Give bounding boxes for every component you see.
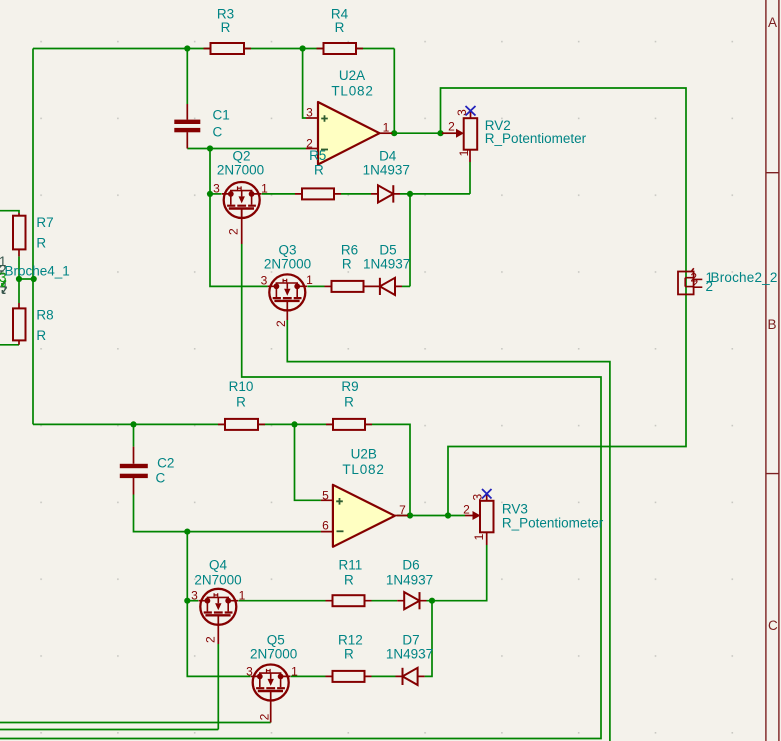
svg-text:3: 3 xyxy=(246,665,253,679)
svg-text:R10: R10 xyxy=(229,379,254,394)
svg-text:2: 2 xyxy=(306,137,313,151)
svg-text:2: 2 xyxy=(692,277,699,291)
svg-text:Q4: Q4 xyxy=(209,558,228,573)
svg-text:2N7000: 2N7000 xyxy=(264,257,311,272)
svg-text:1: 1 xyxy=(457,149,471,156)
svg-text:3: 3 xyxy=(470,494,484,501)
svg-text:R8: R8 xyxy=(36,308,53,323)
svg-text:1: 1 xyxy=(383,121,390,135)
svg-text:1N4937: 1N4937 xyxy=(386,573,433,588)
svg-text:2: 2 xyxy=(204,636,218,643)
svg-text:B: B xyxy=(768,317,777,332)
svg-text:2: 2 xyxy=(227,228,241,235)
svg-text:C1: C1 xyxy=(213,108,230,123)
svg-text:R: R xyxy=(314,163,324,178)
svg-text:RV3: RV3 xyxy=(502,502,528,517)
svg-text:C: C xyxy=(213,125,223,140)
svg-text:D4: D4 xyxy=(379,149,397,164)
svg-text:1N4937: 1N4937 xyxy=(386,647,433,662)
svg-text:A: A xyxy=(768,15,777,30)
svg-text:D7: D7 xyxy=(402,633,419,648)
svg-text:3: 3 xyxy=(306,106,313,120)
svg-text:TL082: TL082 xyxy=(331,84,373,99)
svg-text:R6: R6 xyxy=(341,243,358,258)
svg-text:3: 3 xyxy=(261,274,268,288)
svg-text:C: C xyxy=(768,618,778,633)
svg-text:D5: D5 xyxy=(379,243,396,258)
svg-text:2: 2 xyxy=(448,120,455,134)
svg-text:C: C xyxy=(156,471,166,486)
svg-text:1N4937: 1N4937 xyxy=(363,163,410,178)
svg-text:3: 3 xyxy=(455,109,469,116)
svg-text:1N4937: 1N4937 xyxy=(363,257,410,272)
svg-text:2N7000: 2N7000 xyxy=(250,647,297,662)
svg-text:2N7000: 2N7000 xyxy=(217,163,264,178)
svg-text:U2A: U2A xyxy=(339,68,365,83)
svg-text:R: R xyxy=(36,236,46,251)
svg-text:R: R xyxy=(335,20,345,35)
svg-text:5: 5 xyxy=(322,489,329,503)
svg-text:2: 2 xyxy=(463,503,470,517)
svg-text:2: 2 xyxy=(706,279,714,294)
svg-text:R_Potentiometer: R_Potentiometer xyxy=(485,131,587,146)
svg-text:2N7000: 2N7000 xyxy=(194,573,241,588)
svg-text:3: 3 xyxy=(213,182,220,196)
svg-text:1: 1 xyxy=(261,182,268,196)
svg-text:R: R xyxy=(344,647,354,662)
svg-text:R11: R11 xyxy=(339,558,363,573)
svg-text:R: R xyxy=(344,395,354,410)
svg-text:Broche2_2: Broche2_2 xyxy=(711,270,778,285)
svg-text:R_Potentiometer: R_Potentiometer xyxy=(502,516,604,531)
svg-text:2: 2 xyxy=(274,320,288,327)
svg-text:U2B: U2B xyxy=(351,447,377,462)
svg-text:1: 1 xyxy=(291,665,298,679)
svg-text:3: 3 xyxy=(0,270,7,285)
svg-text:R: R xyxy=(221,20,231,35)
svg-text:Broche4_1: Broche4_1 xyxy=(5,264,70,279)
svg-text:2: 2 xyxy=(258,713,272,720)
svg-text:1: 1 xyxy=(472,533,486,540)
svg-text:3: 3 xyxy=(191,589,198,603)
svg-text:Q5: Q5 xyxy=(267,633,285,648)
svg-text:C2: C2 xyxy=(157,456,174,471)
svg-text:1: 1 xyxy=(306,273,313,287)
svg-text:6: 6 xyxy=(322,518,329,532)
svg-text:R9: R9 xyxy=(341,379,358,394)
svg-text:7: 7 xyxy=(399,503,406,517)
svg-text:D6: D6 xyxy=(402,558,419,573)
svg-text:R: R xyxy=(36,328,46,343)
svg-text:1: 1 xyxy=(239,589,246,603)
svg-text:Q2: Q2 xyxy=(232,149,250,164)
svg-text:R: R xyxy=(236,395,246,410)
svg-text:R12: R12 xyxy=(338,633,363,648)
svg-text:Q3: Q3 xyxy=(278,243,296,258)
svg-text:R: R xyxy=(344,573,354,588)
svg-text:R7: R7 xyxy=(36,215,53,230)
svg-text:R: R xyxy=(342,257,352,272)
svg-text:TL082: TL082 xyxy=(342,462,384,477)
